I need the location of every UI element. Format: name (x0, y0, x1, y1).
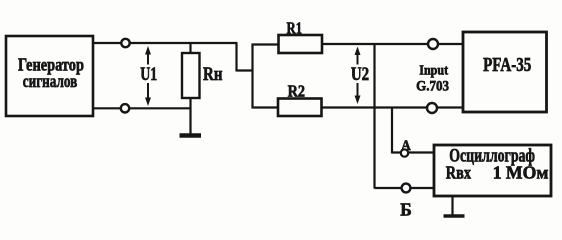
wire to R1 (253, 43, 279, 45)
svg-text:PFA-35: PFA-35 (483, 55, 531, 76)
wire to А terminal (392, 151, 434, 153)
wire jog from top rail to divider branch (237, 43, 254, 72)
wire R2 output to PFA input (322, 106, 464, 108)
wire Rн bottom to ground (189, 98, 191, 134)
svg-text:Б: Б (400, 199, 412, 219)
terminal circle PFA bottom input (427, 103, 437, 113)
wire node А drop (from bottom rail down) (391, 108, 393, 154)
voltage arrow U2 (351, 47, 369, 105)
terminal circle PFA top input (428, 39, 438, 49)
device box PFA-35 (463, 32, 547, 112)
svg-text:А: А (401, 138, 411, 154)
device box oscilloscope "Осциллограф Rвх 1 МОм" (434, 145, 551, 196)
svg-text:Rн: Rн (203, 64, 223, 85)
svg-text:1 МОм: 1 МОм (493, 163, 549, 183)
wire to Б terminal (375, 187, 435, 189)
label Input G.703 (416, 63, 449, 94)
resistor R1 (279, 19, 323, 53)
node label А (401, 138, 411, 154)
svg-text:Rвх: Rвх (446, 163, 471, 183)
wire to R2 (253, 106, 279, 108)
svg-text:G.703: G.703 (416, 78, 449, 94)
ground (under Rн) (180, 133, 202, 138)
svg-text:R2: R2 (288, 81, 305, 100)
svg-text:сигналов: сигналов (23, 71, 78, 91)
svg-text:Input: Input (419, 63, 448, 78)
wire generator bottom output (93, 107, 192, 109)
svg-text:U2: U2 (351, 64, 369, 85)
wire branch vertical (splits to R1/R2) (251, 44, 253, 109)
terminal circle А (401, 149, 408, 156)
wire R1 output to PFA input (322, 43, 463, 45)
voltage arrow U1 (140, 46, 157, 106)
terminal circle Б (402, 184, 411, 193)
resistor R2 (278, 81, 322, 116)
wire oscilloscope to ground (451, 196, 453, 215)
wire generator top output (93, 42, 238, 44)
terminal circle bottom-left (121, 104, 129, 112)
terminal circle top-left (121, 39, 129, 47)
resistor Rн (vertical) (182, 43, 223, 98)
ground (under oscilloscope) (444, 214, 465, 218)
generator box "Генератор сигналов" (6, 36, 93, 116)
node label Б (400, 199, 412, 219)
svg-text:U1: U1 (140, 64, 157, 85)
svg-text:R1: R1 (287, 19, 303, 38)
wire node Б drop (from top rail down) (373, 44, 375, 189)
